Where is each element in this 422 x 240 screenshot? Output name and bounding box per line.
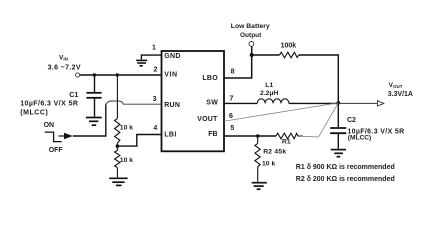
svg-text:10 k: 10 k <box>262 160 275 167</box>
svg-text:10µF/6.3 V/X 5R: 10µF/6.3 V/X 5R <box>20 100 78 107</box>
node junction C1 <box>93 73 96 76</box>
resistor R2 <box>255 136 260 182</box>
svg-text:3: 3 <box>153 96 157 103</box>
svg-text:5: 5 <box>230 125 234 132</box>
wire VOUT node to arrow <box>338 102 377 104</box>
svg-text:L1: L1 <box>265 82 273 89</box>
svg-text:6: 6 <box>229 113 233 120</box>
node VOUT arrow <box>377 101 383 106</box>
switch arrow <box>59 135 65 137</box>
wire R1 to VOUT node (thin leader) <box>303 103 338 137</box>
op-amp U1 (DC/DC converter IC body) <box>162 51 225 151</box>
resistor 100k <box>280 52 299 58</box>
node divider midpoint <box>116 144 120 148</box>
svg-text:R2 45k: R2 45k <box>263 149 286 156</box>
wire pin1 GND stub <box>141 55 161 59</box>
ground (R2) <box>252 183 267 190</box>
svg-text:GND: GND <box>164 53 180 60</box>
wire LBI pin4 <box>117 135 161 147</box>
node VIN terminal circle <box>76 73 80 77</box>
wire switch to riser <box>73 104 106 136</box>
svg-text:Low Battery: Low Battery <box>231 23 270 30</box>
svg-text:C1: C1 <box>69 90 78 99</box>
wire L1 to VOUT node <box>289 102 338 104</box>
node Low Battery Output terminal circle <box>249 42 254 47</box>
svg-text:R1: R1 <box>282 138 291 145</box>
wire SW pin7 <box>224 102 257 104</box>
wire LBO pin8 riser <box>224 46 252 78</box>
node LBO junction <box>250 53 254 57</box>
svg-text:3.6 ~7.2V: 3.6 ~7.2V <box>48 64 81 71</box>
svg-text:2: 2 <box>154 67 158 74</box>
capacitor C2 <box>330 103 346 148</box>
capacitor C1 <box>86 75 101 117</box>
svg-text:(MLCC): (MLCC) <box>348 134 371 141</box>
svg-text:VOUT: VOUT <box>389 82 403 89</box>
node junction divider <box>116 73 119 76</box>
svg-text:OFF: OFF <box>49 147 64 154</box>
svg-text:LBI: LBI <box>164 132 176 139</box>
wire LBO to 100k <box>252 54 280 56</box>
svg-text:3.3V/1A: 3.3V/1A <box>388 91 413 98</box>
svg-text:2.2µH: 2.2µH <box>260 90 278 97</box>
wire RUN hop over divider <box>106 101 162 104</box>
switch ON/OFF step waveform <box>45 132 62 142</box>
ground (C1) <box>86 118 102 126</box>
ground (divider) <box>109 178 128 185</box>
svg-text:8: 8 <box>231 69 235 76</box>
svg-text:R1 δ 900 KΩ is recommended: R1 δ 900 KΩ is recommended <box>296 164 395 171</box>
resistor 10k upper (divider) <box>115 75 120 146</box>
wire pin6 VOUT leader (thin diagonal) <box>224 103 338 121</box>
node VOUT junction <box>337 101 341 105</box>
wire 100k to VOUT node <box>299 55 339 102</box>
resistor R1 <box>276 133 303 139</box>
svg-text:VOUT: VOUT <box>197 116 218 123</box>
svg-text:7: 7 <box>230 96 234 103</box>
svg-text:ON: ON <box>44 122 55 129</box>
inductor L1 <box>257 99 289 104</box>
svg-text:VIN: VIN <box>164 72 177 79</box>
svg-text:10 k: 10 k <box>120 125 133 132</box>
ground (C2) <box>331 150 346 157</box>
svg-text:10 k: 10 k <box>120 157 133 164</box>
wire VIN rail <box>80 74 162 76</box>
ground (pin 1) <box>136 60 147 65</box>
svg-text:Output: Output <box>240 32 262 39</box>
svg-text:R2 δ 200 KΩ is recommended: R2 δ 200 KΩ is recommended <box>296 176 395 183</box>
svg-text:1: 1 <box>152 45 156 52</box>
wire FB pin5 <box>224 135 276 137</box>
svg-text:RUN: RUN <box>164 102 180 109</box>
svg-text:(MLCC): (MLCC) <box>20 110 48 117</box>
svg-text:LBO: LBO <box>202 75 218 82</box>
svg-text:SW: SW <box>206 100 218 107</box>
svg-text:FB: FB <box>208 131 217 138</box>
svg-text:C2: C2 <box>347 117 356 124</box>
resistor 10k lower (divider) <box>115 146 120 177</box>
node FB junction <box>256 134 260 138</box>
svg-text:4: 4 <box>153 125 157 132</box>
svg-text:VIN: VIN <box>59 55 68 62</box>
svg-text:100k: 100k <box>281 42 297 49</box>
